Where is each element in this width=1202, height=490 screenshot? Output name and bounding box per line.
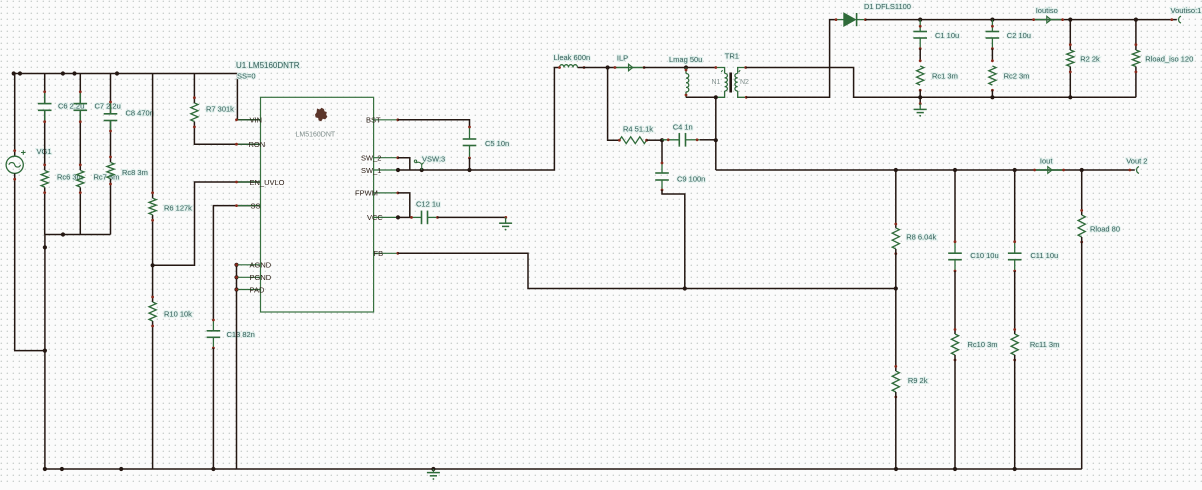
wire Rc2 to isognd — [991, 90, 993, 97]
node dots left drop — [43, 245, 47, 471]
svg-text:VSW:3: VSW:3 — [422, 155, 445, 164]
label R9 2k — [908, 376, 928, 385]
svg-text:R6 127k: R6 127k — [164, 204, 192, 213]
label C7 2.2u — [95, 102, 121, 111]
svg-text:Rc8 3m: Rc8 3m — [122, 168, 148, 177]
svg-text:Ioutiso: Ioutiso — [1036, 6, 1058, 15]
label Rc10 3m — [968, 340, 998, 349]
label Vout 2 — [1126, 157, 1147, 166]
wire C13 to ground rail — [212, 348, 214, 469]
pin label AGND — [250, 261, 272, 270]
wire branch C8/Rc8 — [110, 74, 112, 235]
svg-text:R8 6.04k: R8 6.04k — [906, 233, 936, 242]
wire C9 to FB net — [662, 190, 685, 289]
label N2 — [740, 79, 749, 86]
voltage source VG1 — [6, 74, 45, 351]
probe Ioutiso current — [1032, 16, 1064, 23]
node dots iso bottom rail — [918, 95, 1072, 99]
svg-text:Rload_iso 120: Rload_iso 120 — [1145, 55, 1193, 64]
resistor R8 6.04k — [892, 223, 899, 255]
label SS=0 — [237, 72, 256, 81]
capacitor C9 100n — [655, 162, 669, 192]
svg-text:Iout: Iout — [1040, 157, 1053, 166]
svg-text:C12 1u: C12 1u — [416, 200, 440, 209]
wire R10 branch — [152, 265, 154, 469]
resistor Rc2 3m — [989, 59, 996, 91]
node dot Lmag top — [684, 65, 688, 69]
wire SW_2 jog — [398, 158, 410, 170]
svg-text:C5 10n: C5 10n — [485, 139, 509, 148]
pin label SW_1 — [361, 166, 381, 175]
capacitor C4 1n — [662, 133, 700, 147]
node dots bottom rail — [60, 467, 1017, 471]
capacitor C10 10u — [948, 240, 962, 272]
pins U1 right stubs — [374, 120, 398, 254]
capacitor C6 — [38, 90, 52, 123]
transformer TR1 primary — [714, 66, 727, 97]
svg-text:VIN: VIN — [250, 116, 263, 125]
wire C10 to Rc10 — [954, 271, 956, 334]
pin label FPWM — [355, 189, 378, 198]
label C8 470n — [126, 109, 154, 118]
probe ILP current — [614, 64, 646, 71]
svg-text:R2 2k: R2 2k — [1080, 55, 1100, 64]
svg-text:C1 10u: C1 10u — [935, 31, 959, 40]
wire C5 to SW — [469, 158, 471, 170]
wire VCC to C12 — [398, 216, 411, 218]
label Rload_iso 120 — [1145, 55, 1193, 64]
pin label BST — [366, 116, 381, 125]
wire R6 branch — [152, 74, 154, 266]
resistor R6 — [149, 191, 156, 221]
inductor Lmag 50u — [685, 68, 689, 98]
label Ioutiso — [1036, 6, 1058, 15]
wire C11 to Rc11 — [1014, 271, 1016, 334]
pin label PGND — [250, 273, 272, 282]
wire BST to C5 — [398, 120, 470, 127]
node dots Vout rail — [894, 168, 1084, 172]
probe Iout current — [1033, 167, 1065, 174]
wire AGND chain — [236, 265, 238, 469]
wire Rload_iso leads — [1135, 20, 1137, 98]
svg-text:D1 DFLS1100: D1 DFLS1100 — [864, 2, 911, 11]
svg-text:N1: N1 — [712, 79, 721, 86]
label D1 DFLS1100 — [864, 2, 911, 11]
wire C2 to Rc2 — [991, 49, 993, 61]
svg-text:FB: FB — [374, 249, 384, 258]
wire SW_1 run — [398, 68, 560, 171]
logo TI inside U1 — [315, 108, 327, 122]
wire Rload top — [1081, 170, 1083, 215]
svg-text:Rc10 3m: Rc10 3m — [968, 340, 998, 349]
node dot primary bottom — [714, 95, 718, 99]
label Rc8 3m — [122, 168, 148, 177]
wire ILP to TR1 — [643, 67, 716, 69]
svg-text:RON: RON — [249, 140, 266, 149]
wire R4 to C4 — [647, 139, 662, 141]
resistor Rload_iso 120 — [1132, 43, 1139, 73]
pin terminal dots right — [396, 118, 399, 254]
label Rload 80 — [1090, 225, 1120, 234]
svg-text:Rc1 3m: Rc1 3m — [932, 72, 958, 81]
label Rc7 3m — [94, 173, 120, 182]
node junction R6/R10/EN — [151, 263, 155, 267]
capacitor C11 10u — [1008, 240, 1022, 272]
svg-text:Lleak 600n: Lleak 600n — [554, 53, 591, 62]
svg-text:Lmag 50u: Lmag 50u — [669, 55, 702, 64]
label R10 10k — [164, 310, 192, 319]
label C1 10u — [935, 31, 959, 40]
wire C1 to Rc1 — [919, 49, 921, 61]
probe VSW:3 — [414, 160, 425, 170]
svg-text:C7 2.2u: C7 2.2u — [95, 102, 121, 111]
resistor R4 51.1k — [618, 137, 648, 144]
transformer TR1 core — [729, 73, 732, 93]
wire R8 top — [895, 170, 897, 228]
resistor Rc10 3m — [951, 328, 958, 361]
pin label RON — [249, 140, 266, 149]
label C10 10u — [970, 251, 998, 260]
wire Lleak to ILP — [578, 67, 617, 69]
svg-text:Vout 2: Vout 2 — [1126, 157, 1147, 166]
svg-text:PAD: PAD — [250, 285, 265, 294]
label U1 LM5160DNTR — [236, 61, 300, 70]
wire Vout rail — [716, 169, 1135, 171]
resistor R10 — [149, 296, 156, 328]
svg-text:R10 10k: R10 10k — [164, 310, 192, 319]
node dots SW node — [396, 168, 472, 172]
op-amp U1 LM5160DNTR box — [261, 97, 374, 312]
wire secondary top to isognd — [746, 68, 1136, 98]
svg-text:BST: BST — [366, 116, 381, 125]
label C9 100n — [677, 175, 705, 184]
node dot R4/C4/C9 — [660, 138, 664, 142]
pin label PAD — [250, 285, 265, 294]
wire top input rail — [14, 73, 238, 75]
wire R4 drop — [608, 68, 620, 141]
svg-text:N2: N2 — [740, 79, 749, 86]
label R7 301k — [206, 105, 234, 114]
node dot VCC — [396, 215, 400, 219]
wire branch C6/Rc6 — [44, 74, 46, 235]
svg-text:PGND: PGND — [250, 273, 272, 282]
label N1 — [712, 79, 721, 86]
label R8 6.04k — [906, 233, 936, 242]
svg-text:TR1: TR1 — [725, 52, 739, 61]
node dot C4/primary — [714, 138, 718, 142]
svg-text:Rc11 3m: Rc11 3m — [1030, 340, 1059, 349]
svg-text:Rload 80: Rload 80 — [1090, 225, 1120, 234]
wire input caps bottom — [45, 234, 111, 236]
wire branch C7/Rc7 — [79, 74, 81, 235]
label C11 10u — [1030, 251, 1058, 260]
svg-text:R4 51.1k: R4 51.1k — [623, 125, 653, 134]
transformer polarity marks — [721, 70, 740, 72]
label C4 1n — [673, 122, 693, 131]
wire R9 to gnd — [895, 392, 897, 469]
pin terminal dots left — [235, 118, 238, 291]
wire SS to C13 — [213, 206, 260, 320]
svg-text:LM5160DNT: LM5160DNT — [296, 132, 336, 139]
svg-text:C13 82n: C13 82n — [227, 330, 255, 339]
pin label SS — [251, 201, 261, 210]
wire C4 to primary — [700, 139, 716, 141]
wire R7 branch — [194, 74, 260, 145]
pins U1 left stubs — [237, 120, 261, 290]
resistor R9 2k — [892, 365, 899, 398]
label C6 2.2u — [58, 102, 84, 111]
label Voutiso:1 — [1171, 6, 1202, 15]
label C13 82n — [227, 330, 255, 339]
resistor R2 2k — [1067, 43, 1074, 73]
capacitor C2 10u — [986, 20, 1000, 50]
label R4 51.1k — [623, 125, 653, 134]
node junction dots on input rail — [12, 71, 120, 75]
label Rc1 3m — [932, 72, 958, 81]
capacitor C5 — [463, 126, 477, 160]
capacitor C8 — [104, 101, 118, 133]
label VG1 — [37, 147, 52, 156]
svg-text:C11 10u: C11 10u — [1030, 251, 1058, 260]
label LM5160DNT inside U1 — [296, 132, 336, 139]
resistor Rc7 — [77, 164, 84, 195]
svg-text:R9 2k: R9 2k — [908, 376, 928, 385]
wire R2 leads — [1069, 20, 1071, 98]
wire R8 to R9 — [895, 249, 897, 371]
svg-text:SS=0: SS=0 — [237, 72, 256, 81]
wire EN_UVLO — [153, 182, 261, 265]
node dots iso top rail — [918, 18, 1138, 22]
node dot FB/R8 — [894, 286, 898, 290]
wire Rc10 to gnd — [954, 355, 956, 469]
svg-text:VCC: VCC — [367, 213, 383, 222]
svg-text:EN_UVLO: EN_UVLO — [250, 178, 285, 187]
diode D1 DFLS1100 — [835, 13, 867, 26]
svg-text:FPWM: FPWM — [355, 189, 378, 198]
resistor Rload 80 — [1078, 209, 1085, 243]
wire FPWM jog — [398, 193, 410, 218]
svg-text:ILP: ILP — [617, 54, 628, 63]
svg-text:C2 10u: C2 10u — [1007, 31, 1031, 40]
wire primary drop to Vout — [715, 97, 717, 170]
wire C12 to ground — [438, 216, 506, 218]
resistor R7 — [191, 96, 198, 128]
resistor Rc1 3m — [917, 59, 924, 91]
terminal Vout 2 — [1128, 167, 1139, 174]
svg-text:AGND: AGND — [250, 261, 272, 270]
label VSW:3 — [422, 155, 445, 164]
node dot FB/C9 — [683, 286, 687, 290]
label C12 1u — [416, 200, 440, 209]
wire iso top rail — [865, 19, 1176, 21]
label Iout — [1040, 157, 1053, 166]
label Rc6 3m — [57, 173, 83, 182]
capacitor C12 — [410, 211, 439, 225]
wire Rload to gnd — [1081, 237, 1083, 469]
ground symbol main — [427, 467, 440, 480]
svg-text:U1 LM5160DNTR: U1 LM5160DNTR — [236, 61, 300, 70]
label Lmag 50u — [669, 55, 702, 64]
svg-text:C9 100n: C9 100n — [677, 175, 705, 184]
node dot caps bottom — [61, 232, 65, 236]
label Lleak 600n — [554, 53, 591, 62]
svg-text:C4 1n: C4 1n — [673, 122, 693, 131]
label ILP — [617, 54, 628, 63]
label Rc11 3m — [1030, 340, 1059, 349]
label Rc2 3m — [1004, 72, 1030, 81]
ground symbol VCC — [499, 216, 512, 231]
wire VIN rail drop to VIN pin — [237, 74, 260, 120]
node dots AGND PGND PAD — [234, 263, 238, 292]
svg-text:SW_1: SW_1 — [361, 166, 381, 175]
pin label FB — [374, 249, 384, 258]
capacitor C7 — [74, 90, 88, 123]
svg-text:Voutiso:1: Voutiso:1 — [1171, 6, 1202, 15]
svg-text:R7 301k: R7 301k — [206, 105, 234, 114]
terminal Voutiso:1 — [1170, 16, 1181, 23]
svg-text:SW_2: SW_2 — [361, 154, 381, 163]
svg-text:C8 470n: C8 470n — [126, 109, 154, 118]
pin label VCC — [367, 213, 383, 222]
label C5 10n — [485, 139, 509, 148]
wire secondary bottom to diode — [746, 20, 836, 98]
wire C10 top — [954, 170, 956, 242]
capacitor C13 — [207, 319, 221, 350]
wire left ground drop — [44, 235, 46, 470]
wire C11 top — [1014, 170, 1016, 242]
label C2 10u — [1007, 31, 1031, 40]
wire bottom ground rail — [45, 468, 1082, 470]
pin label EN_UVLO — [250, 178, 285, 187]
svg-text:SS: SS — [251, 201, 261, 210]
inductor Lleak 600n — [558, 65, 585, 69]
capacitor C1 10u — [913, 20, 927, 50]
transformer TR1 secondary — [735, 66, 748, 99]
pin label VIN — [250, 116, 263, 125]
svg-text:Rc2 3m: Rc2 3m — [1004, 72, 1030, 81]
label R2 2k — [1080, 55, 1100, 64]
wire C9 top — [661, 140, 663, 163]
svg-text:C10 10u: C10 10u — [970, 251, 998, 260]
wire Rc1 to isognd — [919, 90, 921, 97]
wire Lmag bottom — [686, 96, 716, 98]
wire Rc11 to gnd — [1014, 355, 1016, 469]
pin label SW_2 — [361, 154, 381, 163]
resistor Rc6 — [41, 164, 48, 195]
node dot R4 tap — [606, 65, 610, 69]
label TR1 — [725, 52, 739, 61]
ground symbol iso — [914, 97, 927, 116]
resistor Rc8 — [107, 156, 114, 186]
label R6 127k — [164, 204, 192, 213]
resistor Rc11 3m — [1011, 328, 1018, 361]
wire FB net — [398, 253, 896, 288]
